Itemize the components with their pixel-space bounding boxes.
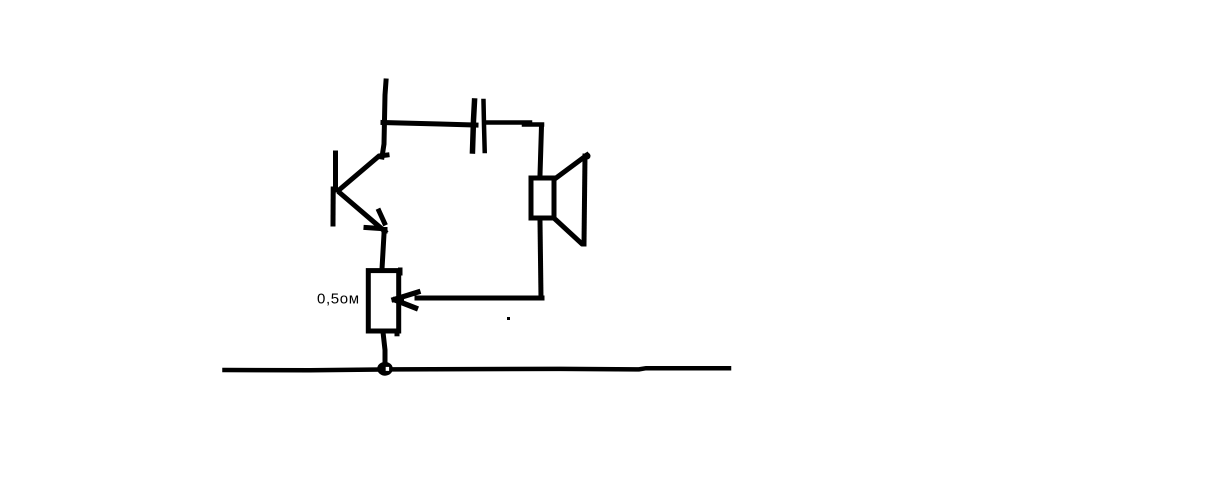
node: junction dot on ground rail xyxy=(379,364,390,374)
transistor base bar xyxy=(333,153,338,190)
transistor emitter arrowhead barb (horizontal) xyxy=(366,228,380,229)
capacitor C (right plate) xyxy=(484,101,485,151)
transistor base bar (lower segment) xyxy=(331,189,336,224)
speaker LS (cone bottom edge) xyxy=(556,220,581,243)
wire: capacitor to top-right corner xyxy=(486,120,530,125)
transistor emitter arrowhead barb (vertical) xyxy=(379,211,385,223)
ground rail (common bus wire) xyxy=(225,368,730,370)
wire: collector node to capacitor xyxy=(383,123,476,126)
wire: speaker bottom down to wiper corner xyxy=(540,221,541,298)
speaker LS (cone corner blob) xyxy=(586,155,588,157)
resistor body top-right corner stub xyxy=(398,268,403,276)
transistor emitter stroke xyxy=(340,193,385,232)
speaker LS (coil box) xyxy=(531,178,554,218)
resistor R 0,5om (body) xyxy=(368,271,398,331)
svg-text:0,5ом: 0,5ом xyxy=(317,291,360,308)
speaker LS (cone top edge) xyxy=(556,155,587,178)
transistor emitter arrowhead tip blob xyxy=(382,227,388,234)
wire: resistor bottom lead to node xyxy=(383,332,385,361)
wire: emitter lead to resistor top xyxy=(382,234,384,269)
node pinhole (white speck in junction dot) xyxy=(386,367,389,371)
resistor body bottom-right corner blob xyxy=(395,330,400,336)
wire: wiper horizontal shaft xyxy=(417,296,542,301)
wire: collector top lead xyxy=(382,81,386,157)
speaker LS (cone right edge) xyxy=(584,156,585,244)
wire: jog segment to corner xyxy=(524,122,542,127)
stray ink dot xyxy=(507,317,510,320)
transistor collector stroke xyxy=(339,155,387,190)
wiper arrowhead lower barb xyxy=(395,300,416,308)
wire: corner down to speaker top xyxy=(540,126,542,175)
wiper arrowhead upper barb xyxy=(394,292,418,300)
capacitor C (left plate) xyxy=(473,101,475,151)
wiper arrowhead vertex blob xyxy=(394,295,405,305)
